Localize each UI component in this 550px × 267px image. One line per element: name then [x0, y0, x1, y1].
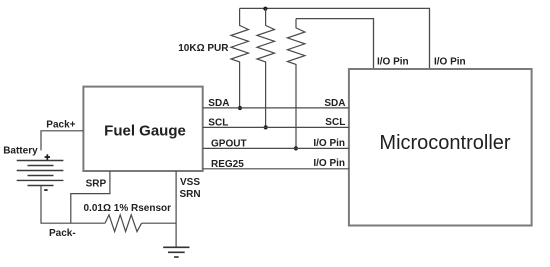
svg-text:10KΩ PUR: 10KΩ PUR	[178, 43, 229, 54]
svg-text:I/O Pin: I/O Pin	[377, 56, 409, 67]
svg-text:SDA: SDA	[208, 98, 229, 109]
junction dot at R2 top	[263, 7, 267, 11]
microcontroller U2 box	[349, 69, 532, 226]
resistor R3 10K pull-up	[287, 19, 305, 149]
svg-text:Fuel Gauge: Fuel Gauge	[104, 123, 186, 140]
wire Pack+ from battery to fuel gauge	[41, 131, 83, 151]
junction dot R2 on SCL	[264, 125, 268, 129]
resistor Rsensor 0.01 ohm	[105, 215, 142, 232]
svg-text:Pack+: Pack+	[46, 120, 75, 131]
svg-text:I/O Pin: I/O Pin	[434, 56, 466, 67]
wire VSS/SRN to ground	[175, 171, 177, 247]
svg-text:GPOUT: GPOUT	[211, 139, 247, 150]
svg-text:REG25: REG25	[211, 159, 244, 170]
junction dot R3 on GPOUT	[294, 146, 298, 150]
svg-text:I/O Pin: I/O Pin	[313, 158, 345, 169]
svg-text:SCL: SCL	[208, 118, 228, 129]
wire REG25 net	[203, 168, 349, 170]
ground symbol	[163, 247, 189, 257]
wire SDA net	[203, 107, 349, 109]
svg-text:SCL: SCL	[325, 117, 345, 128]
svg-text:SDA: SDA	[324, 98, 345, 109]
junction dot R1 on SDA	[238, 106, 242, 110]
label battery minus	[44, 189, 47, 191]
battery BT1	[17, 161, 64, 186]
svg-text:Pack-: Pack-	[49, 228, 76, 239]
svg-text:Microcontroller: Microcontroller	[379, 132, 510, 154]
svg-text:SRP: SRP	[86, 179, 107, 190]
fuel gauge U1 box	[83, 87, 202, 171]
svg-text:SRN: SRN	[180, 189, 201, 200]
svg-text:VSS: VSS	[180, 177, 200, 188]
wire: pull-up rail to I/O pin (top)	[240, 8, 430, 69]
svg-text:0.01Ω 1% Rsensor: 0.01Ω 1% Rsensor	[84, 203, 172, 214]
svg-text:Battery: Battery	[3, 146, 38, 157]
wire SRP kelvin sense	[71, 171, 110, 223]
wire from Rsensor to VSS node	[142, 222, 177, 224]
wire SCL net	[203, 126, 349, 128]
label battery plus	[45, 154, 50, 160]
resistor R2 10K pull-up	[257, 8, 275, 127]
resistor R1 10K pull-up	[231, 8, 249, 108]
svg-text:I/O Pin: I/O Pin	[313, 138, 345, 149]
wire Pack- from battery to sense resistor	[41, 186, 105, 224]
wire GPOUT net	[203, 147, 349, 149]
wire: second pull-up rail to I/O pin	[296, 19, 374, 69]
